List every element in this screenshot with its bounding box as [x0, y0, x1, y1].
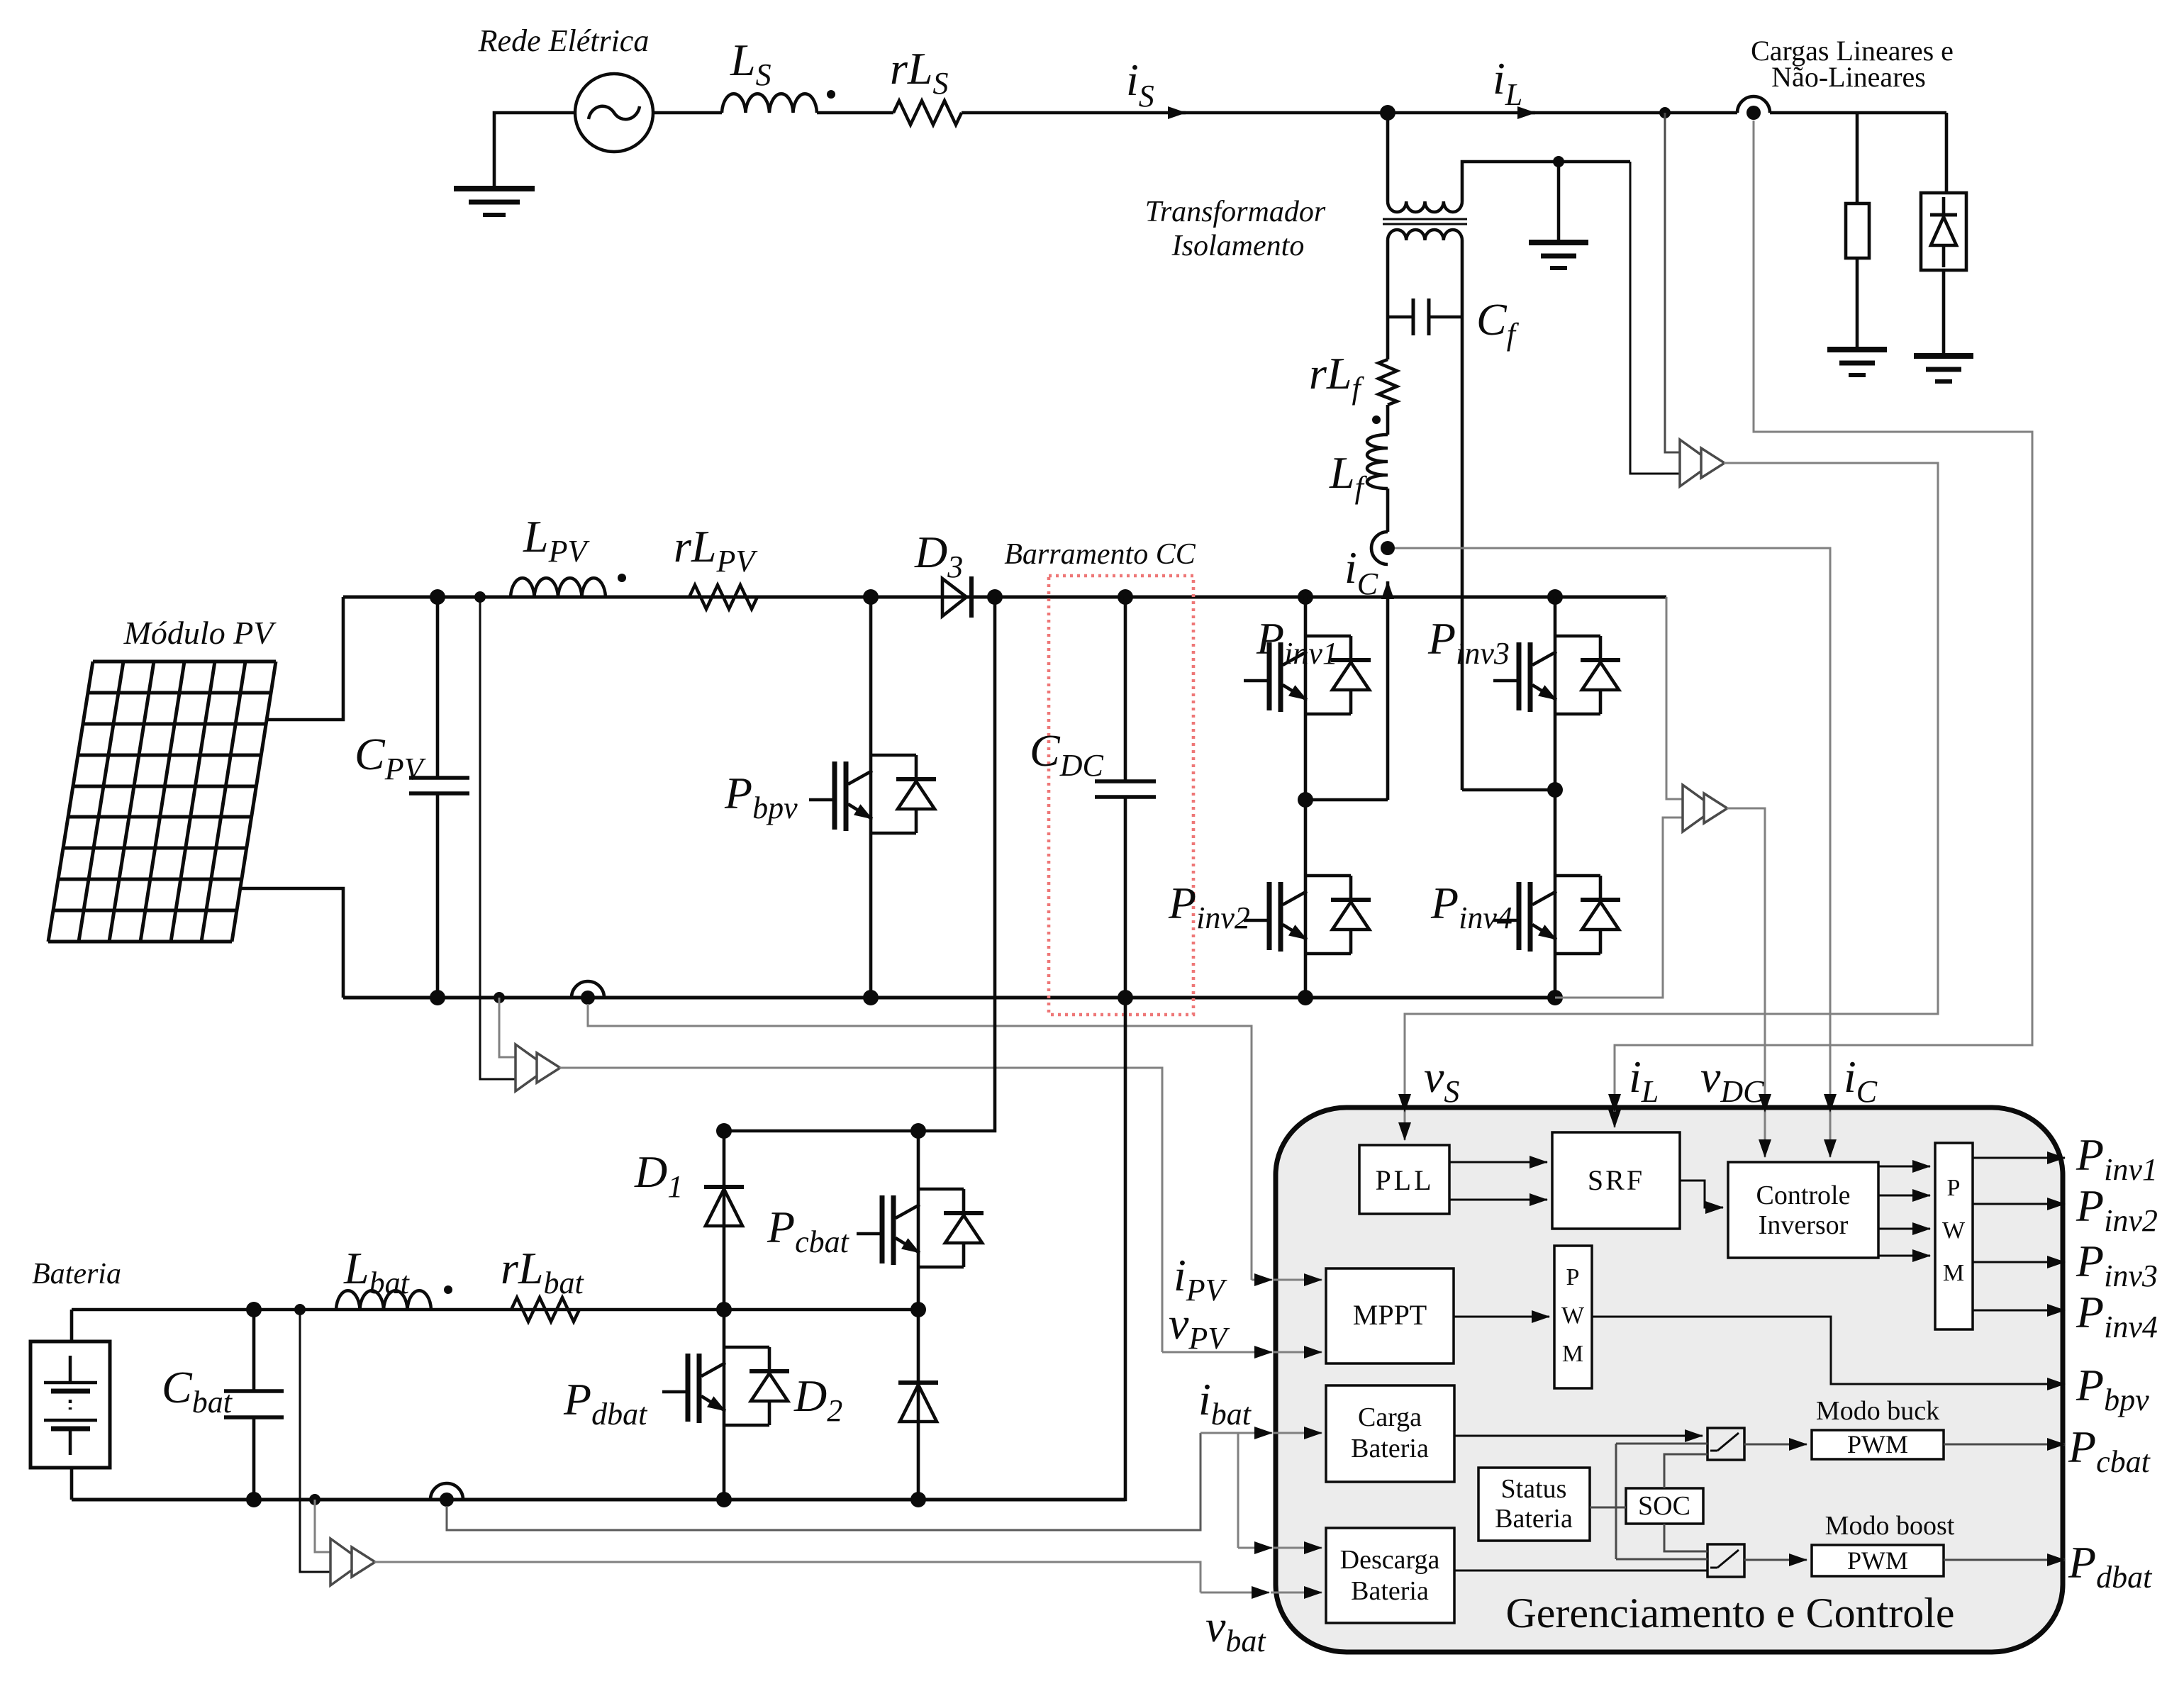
red dotted box — [1049, 576, 1193, 1015]
block Status Bateria — [1478, 1468, 1590, 1541]
capacitor Cbat — [224, 1310, 284, 1500]
wire vPV plus sense — [480, 597, 516, 1079]
wire inverter leg2 — [1554, 597, 1557, 998]
node vbat plus tap — [294, 1304, 306, 1315]
switch box buck — [1707, 1428, 1744, 1460]
svg-text:PWM: PWM — [1847, 1430, 1908, 1458]
wire iC route to control — [1395, 548, 1830, 1157]
wire battery minus lead — [70, 1468, 74, 1500]
inductor LS — [722, 94, 817, 113]
svg-text:Bateria: Bateria — [32, 1258, 121, 1290]
resistor rLPV — [689, 585, 757, 609]
node Pbpv emitter — [863, 990, 879, 1005]
node inverter leg2 top — [1547, 589, 1563, 605]
IGBT Pdbat — [662, 1347, 789, 1425]
node CDC bottom — [1118, 990, 1133, 1005]
inductor Lf vertical — [1367, 435, 1388, 489]
node bottom D2 — [910, 1492, 926, 1507]
IGBT Pbpv — [869, 597, 873, 998]
svg-text:Descarga: Descarga — [1340, 1545, 1440, 1575]
wire Controle to PWM 4 — [1878, 1255, 1930, 1257]
svg-text:W: W — [1942, 1217, 1966, 1244]
svg-text:Rede Elétrica: Rede Elétrica — [478, 23, 650, 58]
op-amp vPV sensor — [516, 1044, 560, 1091]
op-amp vS sensor — [1680, 440, 1725, 486]
sensor iPV — [572, 981, 604, 1005]
block PWM buck — [1812, 1430, 1944, 1459]
wire rLS to node, arrow iS — [962, 111, 1186, 115]
node Cbat top — [246, 1302, 262, 1317]
arrow vDC into box — [1764, 1092, 1766, 1112]
sensor iL — [1737, 96, 1770, 120]
node leg2 midpoint — [1547, 782, 1563, 798]
inductor Lbat — [336, 1290, 431, 1310]
wire PLL to SRF lower — [1449, 1199, 1547, 1201]
svg-text:Carga: Carga — [1358, 1402, 1422, 1432]
resistor load box — [1846, 203, 1869, 258]
wire PV minus out — [240, 888, 343, 998]
svg-text:SOC: SOC — [1638, 1491, 1690, 1521]
switch box boost — [1707, 1544, 1744, 1577]
block PWM mid — [1554, 1246, 1592, 1388]
wire ibat into box — [1200, 1432, 1272, 1434]
svg-text:Isolamento: Isolamento — [1171, 230, 1305, 262]
inductor LPV — [511, 578, 606, 597]
svg-text:Não-Lineares: Não-Lineares — [1771, 61, 1926, 93]
diode D1 — [704, 1187, 744, 1226]
wire node to primary — [1386, 113, 1390, 201]
block SRF — [1552, 1132, 1680, 1229]
wire Carga to switch — [1454, 1435, 1703, 1437]
node vbat minus tap — [309, 1494, 321, 1505]
sensor ibat — [430, 1483, 463, 1507]
wire Status to SOC — [1590, 1507, 1626, 1509]
wire Lf to sensor — [1386, 489, 1390, 532]
node vPV minus tap — [494, 992, 505, 1003]
diode D3 — [942, 576, 971, 618]
IGBT Pinv1 — [1244, 636, 1371, 714]
capacitor CDC — [1095, 597, 1156, 998]
svg-text:Status: Status — [1501, 1474, 1567, 1504]
node CDC top — [1118, 589, 1133, 605]
wire vbat minus sense — [315, 1500, 330, 1552]
wire ibat branch to Descarga — [1237, 1433, 1239, 1548]
block PWM boost — [1812, 1545, 1944, 1576]
PV panel grid — [48, 662, 276, 942]
wire PWM buck to Pcbat out — [1944, 1444, 2065, 1446]
wire nonlinear load drop — [1945, 113, 1949, 193]
node vPV plus tap — [474, 591, 486, 603]
block Carga Bateria — [1326, 1385, 1454, 1482]
node CPV top — [430, 589, 445, 605]
wire iL route to control — [1615, 121, 2032, 1127]
capacitor Cf — [1388, 299, 1462, 335]
wire PLL to SRF upper — [1449, 1161, 1547, 1164]
wire MPPT to PWM mid — [1454, 1316, 1549, 1318]
wire vDC plus tap — [1666, 597, 1683, 799]
op-amp vbat sensor — [330, 1539, 375, 1585]
wire PWM mid to Pbpv out — [1592, 1317, 2065, 1384]
wire D1 leg — [723, 1131, 726, 1500]
dot mark Lbat — [444, 1285, 452, 1294]
wire source to Ls — [653, 111, 722, 115]
wire PWM out Pinv1 — [1973, 1157, 2065, 1159]
wire Status branch to buck switch — [1616, 1443, 1707, 1445]
node D3 cathode — [987, 589, 1003, 605]
battery cells — [44, 1356, 97, 1455]
ground nonlinear load — [1914, 356, 1973, 381]
block Descarga Bateria — [1326, 1528, 1454, 1623]
wire vS route to control — [1405, 463, 1938, 1140]
wire source to ground corner — [494, 113, 575, 186]
arrow iC into box — [1829, 1092, 1832, 1112]
dot mark LS — [827, 90, 835, 99]
wire DC minus to battery minus riser — [72, 998, 1125, 1500]
wire iPV into box — [1252, 1279, 1272, 1281]
wire primary right up and across — [1462, 162, 1630, 201]
block Controle Inversor — [1728, 1162, 1878, 1258]
wire leg2 mid to transformer secondary — [1462, 788, 1555, 792]
wire ibat branch into Descarga — [1274, 1547, 1322, 1549]
node Pbpv collector — [863, 589, 879, 605]
wire vS right tap down — [1630, 162, 1680, 474]
control box Gerenciamento e Controle — [1276, 1108, 2063, 1652]
wire Descarga to boost switch — [1454, 1570, 1707, 1572]
transformer T1 secondary — [1388, 230, 1462, 240]
diode inside load — [1930, 197, 1957, 267]
wire tap to ground — [1557, 162, 1561, 240]
wire vDC route to control — [1727, 808, 1765, 1157]
node ground tap — [1553, 156, 1564, 167]
wire vbat into Descarga — [1271, 1592, 1322, 1594]
wire inverter leg1 — [1304, 597, 1308, 998]
wire vPV output — [559, 1068, 1162, 1352]
op-amp vDC sensor — [1683, 785, 1727, 832]
wire PWM out Pinv4 — [1973, 1310, 2065, 1312]
wire sensor down to bridge mid, arrow iC up — [1386, 581, 1390, 800]
node transformer tap — [1380, 105, 1395, 121]
svg-text:Modo boost: Modo boost — [1825, 1511, 1955, 1541]
wire PWM out Pinv2 — [1973, 1203, 2065, 1205]
wire Pcbat leg — [917, 1131, 920, 1500]
svg-text:Bateria: Bateria — [1495, 1504, 1573, 1534]
node inverter leg1 top — [1298, 589, 1313, 605]
svg-text:Bateria: Bateria — [1351, 1434, 1429, 1463]
IGBT Pinv3 — [1493, 636, 1620, 714]
wire iL arrow to loads — [1525, 111, 1737, 115]
wire buck switch to PWM — [1744, 1444, 1807, 1446]
wire vPV minus sense — [499, 998, 516, 1057]
wire ibat sense — [447, 1433, 1200, 1530]
wire Status branch vertical — [1615, 1444, 1617, 1559]
wire SOC down to boost switch — [1664, 1524, 1707, 1551]
svg-text:Controle: Controle — [1756, 1181, 1851, 1210]
IGBT Pinv4 — [1493, 876, 1620, 954]
svg-text:Modo buck: Modo buck — [1816, 1396, 1939, 1426]
node leg2 bottom — [1547, 990, 1563, 1005]
dot mark Lf — [1372, 415, 1381, 424]
wire sensor to loads corner — [1770, 111, 1946, 115]
svg-text:Transformador: Transformador — [1145, 196, 1326, 228]
resistor rLbat — [511, 1298, 579, 1322]
wire battery mid rail — [72, 1308, 918, 1312]
wire LS to rLS — [817, 111, 893, 115]
wire Controle to PWM 3 — [1878, 1228, 1930, 1230]
svg-text:P: P — [1947, 1175, 1961, 1201]
wire diode load to ground — [1942, 270, 1946, 354]
wire vPV into MPPT — [1274, 1351, 1322, 1354]
node leg1 bottom — [1298, 990, 1313, 1005]
block PWM right — [1935, 1143, 1973, 1329]
ac source V grid — [575, 74, 653, 152]
wire iPV sense — [588, 1004, 1252, 1280]
svg-text:Barramento CC: Barramento CC — [1004, 538, 1196, 571]
capacitor CPV — [409, 597, 469, 998]
node vS tap — [1659, 107, 1671, 118]
wire iPV into MPPT — [1274, 1279, 1322, 1281]
wire secondary right down — [1461, 240, 1464, 790]
block MPPT — [1326, 1268, 1454, 1363]
wire battery plus lead — [70, 1310, 74, 1341]
node mid Pcbat — [910, 1302, 926, 1317]
sensor iC — [1371, 532, 1395, 564]
node leg1 midpoint — [1298, 792, 1313, 808]
wire leg1 mid to iC line — [1305, 798, 1388, 802]
svg-text:P: P — [1566, 1264, 1580, 1290]
wire Controle to PWM 1 — [1878, 1166, 1930, 1168]
resistor rLf vertical — [1378, 359, 1397, 405]
wire secondary left down — [1386, 240, 1390, 359]
node D1 top — [716, 1123, 732, 1139]
svg-text:SRF: SRF — [1588, 1164, 1644, 1196]
wire load to ground — [1856, 258, 1859, 347]
ground linear load — [1827, 350, 1887, 375]
svg-text:M: M — [1562, 1341, 1583, 1367]
node CPV bottom — [430, 990, 445, 1005]
wire PV plus out — [267, 597, 343, 720]
wire PWM boost to Pdbat out — [1944, 1559, 2065, 1561]
diode D2 — [898, 1383, 938, 1422]
arrow iL into box — [1614, 1092, 1616, 1112]
wire vDC minus tap — [1555, 818, 1683, 998]
node Pcbat top — [910, 1123, 926, 1139]
ground transformer — [1529, 242, 1588, 268]
block SOC — [1626, 1488, 1703, 1524]
wire Status branch to boost switch — [1616, 1558, 1707, 1561]
wire Controle to PWM 2 — [1878, 1195, 1930, 1197]
wire DC plus rail — [343, 596, 1666, 599]
wire boost switch to PWM — [1744, 1559, 1807, 1561]
block PLL — [1359, 1145, 1449, 1214]
battery box — [30, 1341, 110, 1468]
svg-text:Módulo PV: Módulo PV — [123, 615, 277, 651]
wire SOC up to buck switch — [1664, 1454, 1707, 1488]
wire battery bottom rail — [72, 1498, 1125, 1502]
wire D3 node down to battery converter — [724, 597, 995, 1131]
wire DC minus rail — [343, 996, 1555, 1000]
wire vPV into box — [1162, 1351, 1272, 1354]
diode load box — [1921, 193, 1966, 270]
svg-text:Gerenciamento e Controle: Gerenciamento e Controle — [1505, 1590, 1954, 1636]
svg-text:M: M — [1943, 1260, 1964, 1286]
wire vbat into box — [1200, 1592, 1269, 1594]
svg-text:Bateria: Bateria — [1351, 1576, 1429, 1606]
wire vbat plus sense — [300, 1310, 330, 1572]
transformer T1 primary — [1388, 201, 1462, 212]
IGBT Pcbat — [857, 1189, 984, 1267]
svg-text:W: W — [1561, 1302, 1585, 1329]
svg-text:PWM: PWM — [1847, 1546, 1908, 1575]
wire vS tap down — [1665, 113, 1680, 452]
wire PWM out Pinv3 — [1973, 1261, 2065, 1263]
wire ibat into Carga — [1274, 1432, 1322, 1434]
transformer core — [1383, 219, 1467, 224]
svg-text:PLL: PLL — [1375, 1164, 1434, 1196]
arrow vS into box — [1404, 1092, 1406, 1112]
svg-text:MPPT: MPPT — [1353, 1299, 1427, 1331]
wire linear load drop — [1856, 113, 1859, 203]
IGBT Pinv2 — [1244, 876, 1371, 954]
svg-text:Inversor: Inversor — [1759, 1210, 1849, 1240]
node bottom Pdbat — [716, 1492, 732, 1507]
wire vbat output — [374, 1562, 1200, 1592]
wire node to iL arrow — [1177, 111, 1535, 115]
wire SRF to Controle — [1680, 1181, 1723, 1207]
wire ibat branch into box — [1238, 1547, 1272, 1549]
resistor rLS — [893, 101, 962, 125]
node mid D1 — [716, 1302, 732, 1317]
node Cbat bottom — [246, 1492, 262, 1507]
dot mark LPV — [618, 574, 626, 582]
ground grid — [454, 189, 535, 215]
